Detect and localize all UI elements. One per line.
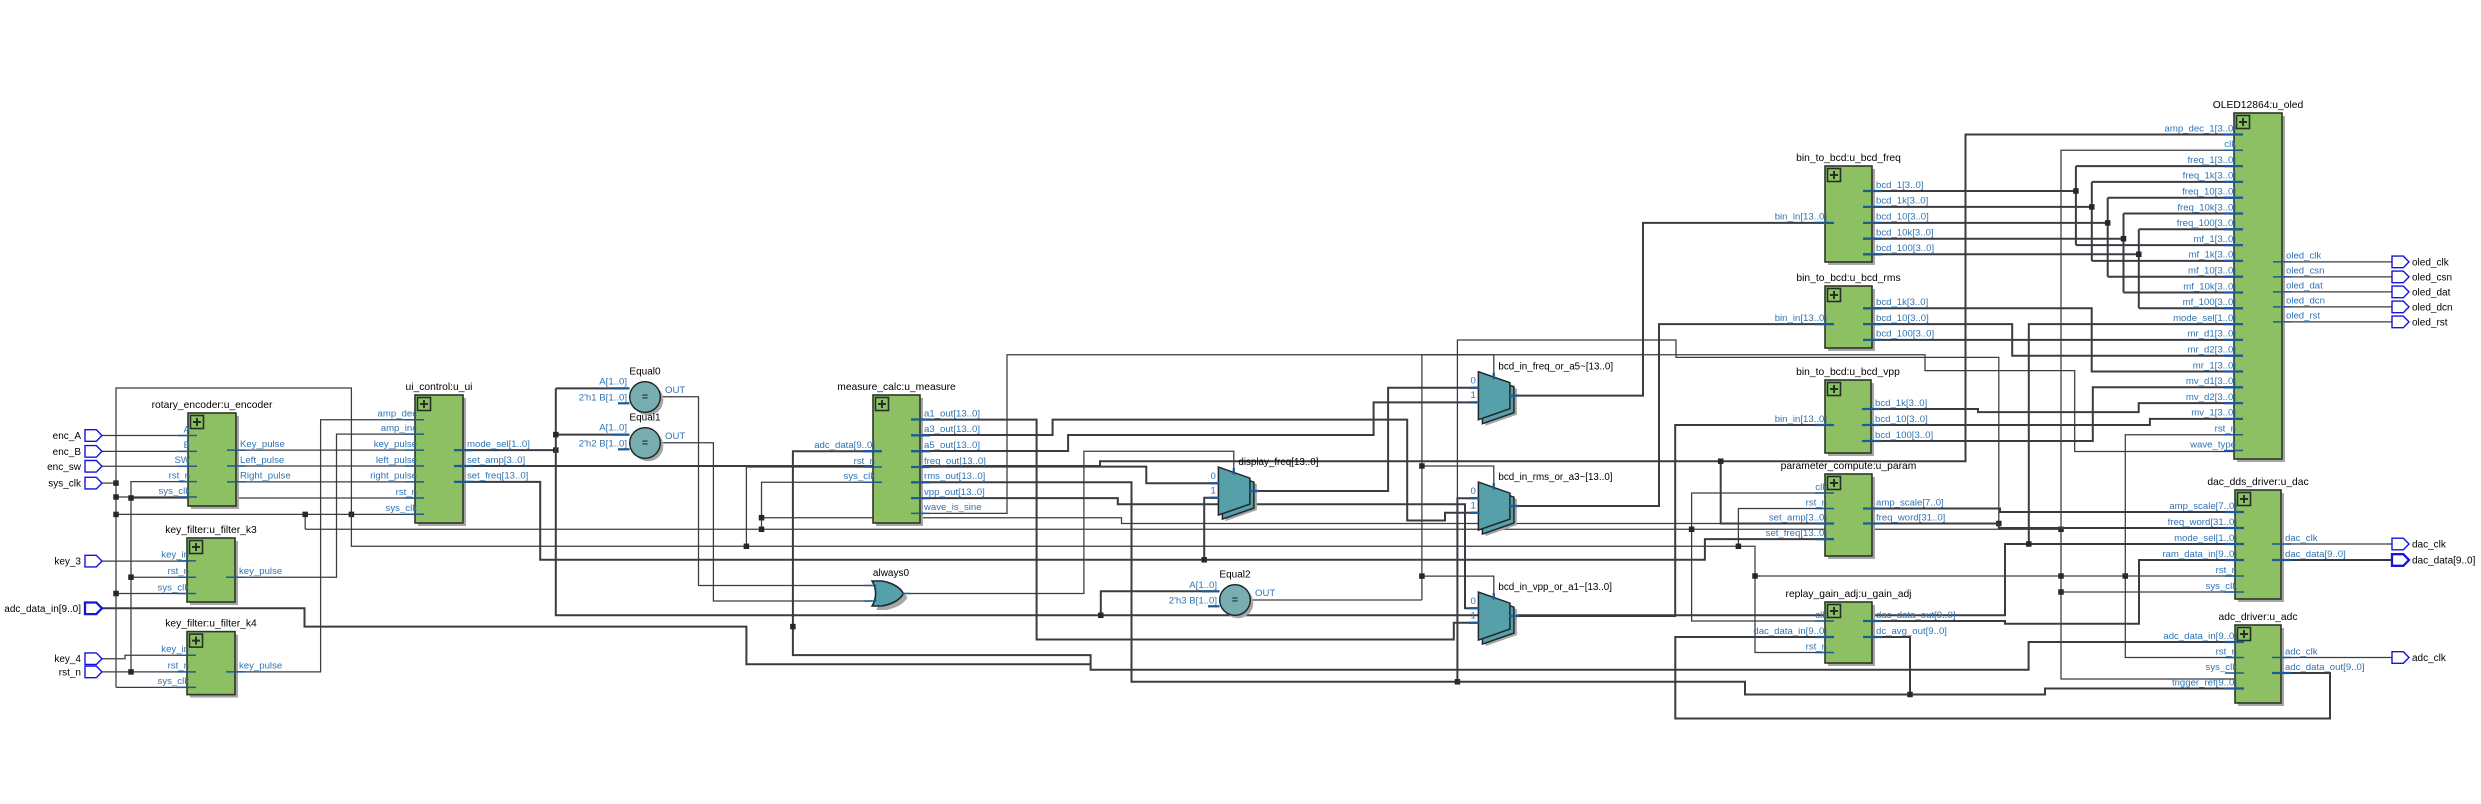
svg-text:clk: clk [2224, 139, 2236, 150]
svg-text:right_pulse: right_pulse [370, 471, 417, 482]
svg-text:bcd_in_freq_or_a5~[13..0]: bcd_in_freq_or_a5~[13..0] [1498, 362, 1613, 373]
svg-text:OLED12864:u_oled: OLED12864:u_oled [2213, 100, 2304, 111]
svg-text:adc_clk: adc_clk [2412, 653, 2447, 664]
svg-text:dac_dds_driver:u_dac: dac_dds_driver:u_dac [2207, 477, 2308, 488]
svg-text:enc_B: enc_B [53, 447, 82, 458]
svg-text:bcd_100[3..0]: bcd_100[3..0] [1876, 243, 1934, 254]
svg-text:1: 1 [1471, 501, 1476, 512]
svg-text:amp_scale[7..0]: amp_scale[7..0] [1876, 497, 1944, 508]
svg-text:OUT: OUT [665, 431, 685, 442]
svg-text:wave_is_sine: wave_is_sine [923, 502, 982, 513]
svg-text:key_filter:u_filter_k3: key_filter:u_filter_k3 [165, 525, 257, 536]
svg-text:oled_dat: oled_dat [2286, 281, 2323, 292]
svg-text:oled_rst: oled_rst [2286, 311, 2320, 322]
svg-text:enc_sw: enc_sw [47, 462, 82, 473]
svg-text:adc_data[9..0]: adc_data[9..0] [814, 440, 875, 451]
svg-text:freq_1k[3..0]: freq_1k[3..0] [2183, 171, 2236, 182]
svg-text:0: 0 [1211, 471, 1216, 482]
svg-text:bcd_1k[3..0]: bcd_1k[3..0] [1876, 196, 1928, 207]
svg-text:1: 1 [1471, 390, 1476, 401]
svg-text:bin_in[13..0]: bin_in[13..0] [1775, 414, 1827, 425]
svg-text:adc_driver:u_adc: adc_driver:u_adc [2219, 612, 2298, 623]
svg-text:enc_A: enc_A [53, 431, 82, 442]
svg-text:sys_clk: sys_clk [2206, 581, 2238, 592]
svg-text:rst_n: rst_n [854, 456, 875, 467]
svg-text:oled_clk: oled_clk [2286, 251, 2321, 262]
svg-text:=: = [1232, 594, 1238, 606]
svg-text:clk: clk [1815, 610, 1827, 621]
svg-text:Left_pulse: Left_pulse [240, 455, 284, 466]
svg-text:A: A [184, 424, 191, 435]
svg-text:replay_gain_adj:u_gain_adj: replay_gain_adj:u_gain_adj [1786, 589, 1912, 600]
svg-text:key_pulse: key_pulse [239, 661, 282, 672]
svg-text:key_filter:u_filter_k4: key_filter:u_filter_k4 [165, 619, 257, 630]
svg-text:bin_in[13..0]: bin_in[13..0] [1775, 212, 1827, 223]
svg-text:mode_sel[1..0]: mode_sel[1..0] [467, 439, 530, 450]
svg-text:rst_n: rst_n [59, 667, 81, 678]
svg-text:mr_1[3..0]: mr_1[3..0] [2193, 360, 2236, 371]
svg-text:set_amp[3..0]: set_amp[3..0] [467, 455, 525, 466]
svg-text:freq_100[3..0]: freq_100[3..0] [2177, 218, 2236, 229]
svg-text:freq_out[13..0]: freq_out[13..0] [924, 456, 986, 467]
svg-text:Equal1: Equal1 [629, 413, 661, 424]
svg-text:parameter_compute:u_param: parameter_compute:u_param [1781, 461, 1917, 472]
svg-text:key_4: key_4 [54, 654, 81, 665]
svg-text:sys_clk: sys_clk [159, 486, 191, 497]
svg-text:adc_data_in[9..0]: adc_data_in[9..0] [4, 604, 81, 615]
svg-text:A[1..0]: A[1..0] [599, 377, 627, 388]
svg-text:rst_n: rst_n [169, 470, 190, 481]
svg-text:freq_10[3..0]: freq_10[3..0] [2182, 187, 2236, 198]
svg-text:rst_n: rst_n [168, 566, 189, 577]
svg-text:mv_1[3..0]: mv_1[3..0] [2191, 408, 2236, 419]
svg-text:mf_10[3..0]: mf_10[3..0] [2188, 266, 2236, 277]
svg-text:Key_pulse: Key_pulse [240, 439, 285, 450]
svg-text:2'h3 B[1..0]: 2'h3 B[1..0] [1169, 596, 1217, 607]
svg-text:oled_rst: oled_rst [2412, 317, 2448, 328]
svg-text:key_3: key_3 [54, 557, 81, 568]
svg-text:A[1..0]: A[1..0] [1189, 580, 1217, 591]
svg-text:bcd_1[3..0]: bcd_1[3..0] [1876, 180, 1923, 191]
svg-text:bcd_10[3..0]: bcd_10[3..0] [1876, 313, 1929, 324]
svg-text:0: 0 [1471, 376, 1476, 387]
svg-text:bcd_10[3..0]: bcd_10[3..0] [1875, 414, 1928, 425]
svg-text:0: 0 [1471, 486, 1476, 497]
svg-text:=: = [642, 391, 648, 403]
svg-text:oled_dcn: oled_dcn [2412, 302, 2453, 313]
svg-text:rotary_encoder:u_encoder: rotary_encoder:u_encoder [152, 400, 273, 411]
svg-text:SW: SW [175, 455, 191, 466]
svg-text:dac_clk: dac_clk [2285, 533, 2318, 544]
svg-text:rst_n: rst_n [2215, 424, 2236, 435]
svg-text:a3_out[13..0]: a3_out[13..0] [924, 424, 980, 435]
svg-text:oled_csn: oled_csn [2412, 272, 2452, 283]
svg-text:set_amp[3..0]: set_amp[3..0] [1769, 512, 1827, 523]
svg-text:ram_data_in[9..0]: ram_data_in[9..0] [2162, 549, 2237, 560]
svg-text:mv_d1[3..0]: mv_d1[3..0] [2186, 376, 2236, 387]
svg-text:A[1..0]: A[1..0] [599, 423, 627, 434]
svg-text:sys_clk: sys_clk [844, 471, 876, 482]
svg-text:rst_n: rst_n [2216, 565, 2237, 576]
svg-text:rms_out[13..0]: rms_out[13..0] [924, 471, 985, 482]
svg-text:bcd_in_rms_or_a3~[13..0]: bcd_in_rms_or_a3~[13..0] [1498, 472, 1612, 483]
svg-text:bcd_100[3..0]: bcd_100[3..0] [1876, 329, 1934, 340]
svg-text:bin_to_bcd:u_bcd_freq: bin_to_bcd:u_bcd_freq [1796, 153, 1901, 164]
svg-text:1: 1 [1471, 611, 1476, 622]
svg-text:oled_clk: oled_clk [2412, 257, 2450, 268]
svg-text:key_pulse: key_pulse [374, 439, 417, 450]
svg-text:freq_10k[3..0]: freq_10k[3..0] [2177, 202, 2236, 213]
svg-text:adc_data_out[9..0]: adc_data_out[9..0] [2285, 662, 2364, 673]
svg-text:dac_data[9..0]: dac_data[9..0] [2285, 549, 2346, 560]
svg-text:wave_type: wave_type [2189, 439, 2236, 450]
svg-text:bin_to_bcd:u_bcd_vpp: bin_to_bcd:u_bcd_vpp [1796, 367, 1900, 378]
svg-text:amp_inc: amp_inc [381, 423, 417, 434]
svg-text:Equal2: Equal2 [1219, 570, 1251, 581]
svg-text:adc_data_in[9..0]: adc_data_in[9..0] [2163, 631, 2237, 642]
svg-text:bcd_10[3..0]: bcd_10[3..0] [1876, 212, 1929, 223]
svg-text:rst_n: rst_n [168, 661, 189, 672]
svg-text:vpp_out[13..0]: vpp_out[13..0] [924, 487, 985, 498]
svg-text:mr_d1[3..0]: mr_d1[3..0] [2187, 329, 2236, 340]
svg-text:OUT: OUT [1255, 588, 1275, 599]
svg-text:a5_out[13..0]: a5_out[13..0] [924, 440, 980, 451]
svg-text:adc_clk: adc_clk [2285, 646, 2318, 657]
svg-text:sys_clk: sys_clk [48, 479, 82, 490]
svg-text:left_pulse: left_pulse [376, 455, 417, 466]
svg-text:B: B [184, 440, 190, 451]
svg-text:dc_avg_out[9..0]: dc_avg_out[9..0] [1876, 626, 1947, 637]
svg-text:oled_csn: oled_csn [2286, 266, 2324, 277]
svg-text:bin_to_bcd:u_bcd_rms: bin_to_bcd:u_bcd_rms [1796, 273, 1900, 284]
svg-text:bcd_1k[3..0]: bcd_1k[3..0] [1875, 398, 1927, 409]
svg-text:set_freq[13..0]: set_freq[13..0] [1766, 528, 1827, 539]
svg-text:bin_in[13..0]: bin_in[13..0] [1775, 313, 1827, 324]
svg-text:1: 1 [1211, 486, 1216, 497]
svg-text:bcd_in_vpp_or_a1~[13..0]: bcd_in_vpp_or_a1~[13..0] [1498, 582, 1612, 593]
svg-text:key_pulse: key_pulse [239, 566, 282, 577]
svg-text:a1_out[13..0]: a1_out[13..0] [924, 408, 980, 419]
svg-text:amp_scale[7..0]: amp_scale[7..0] [2169, 501, 2237, 512]
svg-text:mv_d2[3..0]: mv_d2[3..0] [2186, 392, 2236, 403]
svg-text:set_freq[13..0]: set_freq[13..0] [467, 471, 528, 482]
svg-text:amp_dec: amp_dec [378, 409, 418, 420]
svg-text:rst_n: rst_n [396, 487, 417, 498]
svg-text:freq_1[3..0]: freq_1[3..0] [2187, 155, 2236, 166]
svg-text:measure_calc:u_measure: measure_calc:u_measure [837, 382, 956, 393]
svg-text:dac_data[9..0]: dac_data[9..0] [2412, 556, 2476, 567]
svg-text:display_freq[13..0]: display_freq[13..0] [1238, 457, 1318, 468]
svg-text:bcd_100[3..0]: bcd_100[3..0] [1875, 430, 1933, 441]
svg-text:rst_n: rst_n [1806, 641, 1827, 652]
svg-text:key_in: key_in [161, 550, 189, 561]
svg-text:sys_clk: sys_clk [158, 582, 190, 593]
svg-text:always0: always0 [873, 568, 910, 579]
svg-text:=: = [642, 437, 648, 449]
svg-text:dac_clk: dac_clk [2412, 540, 2447, 551]
svg-text:bcd_1k[3..0]: bcd_1k[3..0] [1876, 297, 1928, 308]
svg-text:trigger_ref[9..0]: trigger_ref[9..0] [2172, 677, 2237, 688]
svg-text:mf_100[3..0]: mf_100[3..0] [2183, 297, 2236, 308]
svg-text:mode_sel[1..0]: mode_sel[1..0] [2173, 313, 2236, 324]
svg-text:mf_1[3..0]: mf_1[3..0] [2193, 234, 2236, 245]
svg-text:sys_clk: sys_clk [386, 503, 418, 514]
svg-text:mf_10k[3..0]: mf_10k[3..0] [2183, 281, 2236, 292]
svg-text:sys_clk: sys_clk [158, 676, 190, 687]
svg-text:OUT: OUT [665, 385, 685, 396]
svg-text:freq_word[31..0]: freq_word[31..0] [1876, 512, 1945, 523]
svg-text:key_in: key_in [161, 644, 189, 655]
svg-text:clk: clk [1815, 482, 1827, 493]
svg-text:rst_n: rst_n [2216, 646, 2237, 657]
svg-text:mr_d2[3..0]: mr_d2[3..0] [2187, 345, 2236, 356]
svg-text:Equal0: Equal0 [629, 367, 661, 378]
svg-text:sys_clk: sys_clk [2206, 662, 2238, 673]
svg-text:mf_1k[3..0]: mf_1k[3..0] [2189, 250, 2236, 261]
svg-text:oled_dat: oled_dat [2412, 287, 2451, 298]
svg-text:dac_data_in[9..0]: dac_data_in[9..0] [1753, 626, 1827, 637]
svg-text:freq_word[31..0]: freq_word[31..0] [2168, 517, 2237, 528]
svg-text:mode_sel[1..0]: mode_sel[1..0] [2174, 533, 2237, 544]
svg-text:dac_data_out[9..0]: dac_data_out[9..0] [1876, 610, 1955, 621]
svg-text:bcd_10k[3..0]: bcd_10k[3..0] [1876, 228, 1934, 239]
svg-text:amp_dec_1[3..0]: amp_dec_1[3..0] [2165, 123, 2236, 134]
svg-text:0: 0 [1471, 596, 1476, 607]
svg-text:2'h1 B[1..0]: 2'h1 B[1..0] [579, 393, 627, 404]
svg-text:2'h2 B[1..0]: 2'h2 B[1..0] [579, 439, 627, 450]
svg-text:oled_dcn: oled_dcn [2286, 296, 2325, 307]
svg-text:Right_pulse: Right_pulse [240, 471, 291, 482]
svg-text:rst_n: rst_n [1806, 497, 1827, 508]
svg-text:ui_control:u_ui: ui_control:u_ui [406, 382, 473, 393]
